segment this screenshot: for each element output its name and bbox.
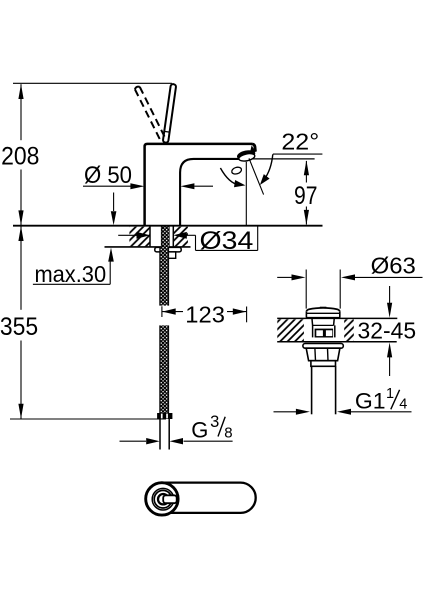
svg-text:G1: G1 [355, 389, 386, 414]
svg-text:3: 3 [210, 413, 219, 431]
svg-text:4: 4 [399, 397, 407, 413]
svg-text:22°: 22° [281, 128, 319, 154]
svg-text:32-45: 32-45 [358, 318, 417, 344]
svg-text:8: 8 [224, 425, 232, 442]
svg-text:G: G [191, 418, 208, 443]
svg-text:Ø 50: Ø 50 [84, 162, 132, 189]
svg-text:Ø34: Ø34 [199, 227, 253, 255]
svg-text:123: 123 [185, 301, 225, 327]
svg-text:Ø63: Ø63 [371, 253, 416, 279]
svg-text:97: 97 [294, 182, 318, 210]
svg-text:max.30: max.30 [34, 261, 106, 287]
svg-text:1: 1 [386, 386, 394, 402]
svg-text:208: 208 [1, 143, 39, 171]
svg-text:355: 355 [0, 313, 38, 341]
